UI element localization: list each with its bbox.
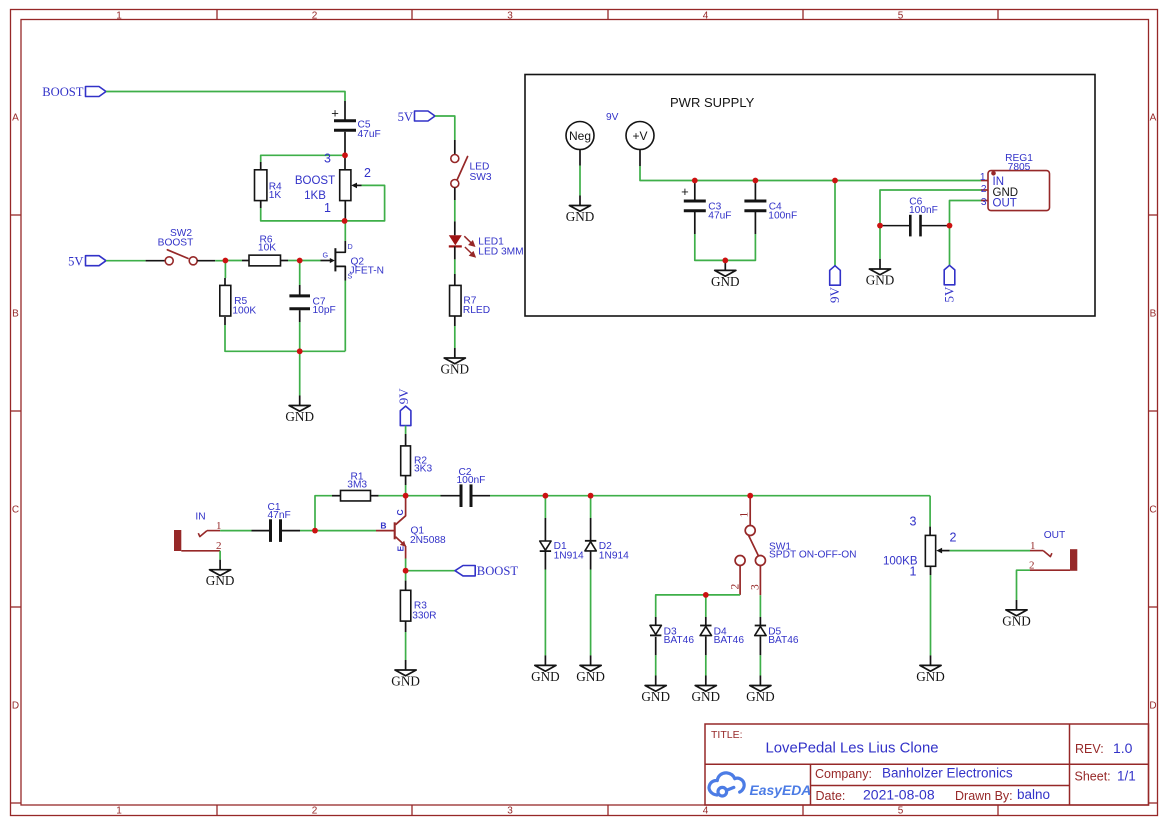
wire 9V branch xyxy=(834,181,836,266)
svg-text:GND: GND xyxy=(692,689,721,704)
svg-text:GND: GND xyxy=(206,573,235,588)
svg-text:330R: 330R xyxy=(412,610,436,621)
svg-text:2: 2 xyxy=(981,184,987,195)
junction 9V rail / C3 xyxy=(692,178,698,184)
svg-text:IN: IN xyxy=(195,512,205,523)
diode D2 1N914 xyxy=(585,518,629,570)
svg-text:BOOST: BOOST xyxy=(295,175,335,187)
junction rail / D1 xyxy=(543,493,549,499)
svg-text:D: D xyxy=(348,242,353,251)
svg-text:LED: LED xyxy=(470,162,490,173)
svg-text:2: 2 xyxy=(312,10,318,21)
wire pot wiper to OUT xyxy=(950,550,1030,552)
svg-text:100nF: 100nF xyxy=(768,210,797,221)
net flag 9V (PWR) xyxy=(827,266,842,303)
svg-text:GND: GND xyxy=(285,409,314,424)
svg-text:2: 2 xyxy=(950,531,957,545)
svg-text:2: 2 xyxy=(216,540,222,552)
svg-text:B: B xyxy=(380,521,386,531)
transistor Q2 JFET-N xyxy=(321,241,385,281)
svg-text:E: E xyxy=(396,546,406,552)
svg-text:10K: 10K xyxy=(258,243,276,254)
svg-text:C: C xyxy=(1149,505,1156,516)
svg-text:A: A xyxy=(12,113,19,124)
junction 9V rail / C4 xyxy=(753,178,759,184)
svg-text:RLED: RLED xyxy=(463,305,490,316)
resistor R4 xyxy=(255,170,283,201)
svg-text:2N5088: 2N5088 xyxy=(410,535,446,546)
wire SW2 to node xyxy=(215,260,225,262)
svg-text:3: 3 xyxy=(324,152,331,166)
wire rail to ground stem xyxy=(299,351,301,395)
wire 5V to SW3 xyxy=(435,116,455,140)
ground (D4) xyxy=(692,676,721,705)
svg-text:2021-08-08: 2021-08-08 xyxy=(863,787,935,803)
junction D-rail / D4 xyxy=(703,592,709,598)
wire D3 to ground xyxy=(655,655,657,675)
wire emitter node to R3 xyxy=(405,571,407,581)
svg-text:5: 5 xyxy=(898,806,904,817)
svg-text:BOOST: BOOST xyxy=(42,85,84,99)
wire collector node to C2 xyxy=(406,495,441,497)
junction C1 / R1 / Q1 base xyxy=(312,528,318,534)
svg-text:SPDT ON-OFF-ON: SPDT ON-OFF-ON xyxy=(769,550,857,561)
wire IN pin1 to C1 xyxy=(220,530,251,532)
svg-text:3: 3 xyxy=(507,10,513,21)
junction rail / SW1 pin1 xyxy=(747,493,753,499)
wire node to R5 xyxy=(224,261,226,279)
svg-text:1: 1 xyxy=(910,565,917,579)
capacitor C7 xyxy=(289,285,335,322)
capacitor C4 xyxy=(744,181,797,235)
svg-text:2: 2 xyxy=(730,584,742,590)
wire Neg to ground xyxy=(579,166,581,196)
svg-text:GND: GND xyxy=(566,209,595,224)
wire REG1 pin3 to C6 right xyxy=(950,201,982,226)
svg-text:100nF: 100nF xyxy=(457,475,486,486)
wire D5 to ground xyxy=(759,655,761,675)
svg-text:3K3: 3K3 xyxy=(414,464,432,475)
svg-text:GND: GND xyxy=(576,669,605,684)
ground (pot) xyxy=(916,655,945,684)
svg-text:D: D xyxy=(12,701,19,712)
switch SW1 SPDT ON-OFF-ON xyxy=(730,496,857,596)
svg-text:3: 3 xyxy=(910,515,917,529)
wire 9V rail xyxy=(640,166,981,181)
svg-text:5V: 5V xyxy=(941,286,956,303)
net flag 5V (PWR) xyxy=(941,265,956,302)
ground (OUT jack) xyxy=(1002,600,1031,629)
wire SW3 to LED1 xyxy=(454,200,456,221)
wire node to C7 xyxy=(299,261,301,286)
svg-text:GND: GND xyxy=(531,669,560,684)
svg-text:Banholzer Electronics: Banholzer Electronics xyxy=(882,766,1013,781)
potentiometer 100KB xyxy=(883,515,957,579)
wire D1 branch xyxy=(544,496,546,518)
ground (IN jack) xyxy=(206,560,235,589)
wire node to R6 xyxy=(225,260,242,262)
svg-text:1.0: 1.0 xyxy=(1113,740,1133,756)
connector IN jack xyxy=(174,512,222,553)
svg-text:Drawn By:: Drawn By: xyxy=(955,789,1013,803)
wire R6 to node xyxy=(281,260,289,262)
svg-text:1K: 1K xyxy=(269,190,282,201)
wire pot bottom to ground xyxy=(930,575,932,655)
connector +V xyxy=(626,122,654,167)
wire rail to pot 100KB xyxy=(929,496,931,527)
svg-text:1N914: 1N914 xyxy=(554,550,584,561)
ground (R3) xyxy=(391,660,420,689)
diode D5 BAT46 xyxy=(755,617,799,655)
junction SW2 / R5 / R6 xyxy=(223,258,229,264)
net flag 5V (SW2) xyxy=(68,255,106,269)
LED LED1 LED 3MM xyxy=(449,221,524,259)
svg-text:C: C xyxy=(395,509,405,515)
svg-text:GND: GND xyxy=(1002,613,1031,628)
diode D3 BAT46 xyxy=(650,617,694,655)
svg-text:B: B xyxy=(12,309,19,320)
svg-text:TITLE:: TITLE: xyxy=(711,729,743,741)
svg-text:LovePedal Les Lius Clone: LovePedal Les Lius Clone xyxy=(765,741,938,757)
svg-text:1: 1 xyxy=(116,10,122,21)
ground (Q2 section) xyxy=(285,396,314,425)
connector Neg xyxy=(566,122,594,166)
wire C7 to rail xyxy=(299,322,301,351)
ground (LED) xyxy=(441,348,470,377)
wire SW1 pin2 rail xyxy=(656,595,740,617)
svg-text:3M3: 3M3 xyxy=(347,479,367,490)
capacitor C2 xyxy=(441,467,491,507)
wire REG1 pin2 to C6 left xyxy=(880,190,981,226)
junction C6 left / GND xyxy=(877,223,883,229)
wire Q2 source to rail xyxy=(344,281,346,352)
wire D2 to ground xyxy=(590,570,592,656)
svg-text:+V: +V xyxy=(632,129,647,143)
svg-text:GND: GND xyxy=(916,669,945,684)
ground (C6) xyxy=(866,259,895,288)
switch SW3 LED xyxy=(451,155,492,188)
svg-text:+: + xyxy=(331,106,339,121)
svg-text:1: 1 xyxy=(739,512,751,518)
wire R2 to collector node xyxy=(405,476,407,485)
svg-text:LED 3MM: LED 3MM xyxy=(478,247,523,258)
junction source rail / ground xyxy=(297,348,303,354)
svg-text:BAT46: BAT46 xyxy=(714,635,745,646)
svg-text:1: 1 xyxy=(1030,540,1036,552)
wire R5 bottom to rail xyxy=(224,317,226,325)
resistor R6 xyxy=(249,235,281,266)
svg-text:BOOST: BOOST xyxy=(158,238,194,249)
resistor R1 xyxy=(341,471,371,501)
diode D4 BAT46 xyxy=(700,617,744,655)
svg-text:PWR SUPPLY: PWR SUPPLY xyxy=(670,95,755,110)
wire D2 branch xyxy=(590,496,592,518)
svg-text:1N914: 1N914 xyxy=(599,550,629,561)
wire SW1 pin3 to D5 xyxy=(759,595,761,617)
svg-text:5: 5 xyxy=(898,10,904,21)
connector OUT jack xyxy=(1029,530,1077,572)
capacitor C3 xyxy=(681,181,731,235)
wire IN pin2 to ground xyxy=(219,551,221,560)
diode D1 1N914 xyxy=(540,518,584,570)
svg-text:1/1: 1/1 xyxy=(1117,769,1136,784)
svg-text:OUT: OUT xyxy=(993,198,1017,210)
voltage regulator REG1 7805 xyxy=(980,153,1050,211)
svg-text:A: A xyxy=(1150,113,1157,124)
switch SW2 BOOST xyxy=(158,228,198,265)
ground (D1) xyxy=(531,655,560,684)
wire 5V flag to SW2 xyxy=(106,260,146,262)
wire C1 to base node xyxy=(300,530,315,532)
svg-text:Company:: Company: xyxy=(815,767,872,781)
svg-text:1: 1 xyxy=(980,172,986,183)
ground (C3 C4) xyxy=(711,260,740,289)
resistor R2 xyxy=(401,446,433,476)
wire C3/C4 to ground xyxy=(695,234,756,260)
svg-text:SW3: SW3 xyxy=(470,172,492,183)
wire gate xyxy=(300,260,321,262)
svg-text:GND: GND xyxy=(391,674,420,689)
svg-text:2: 2 xyxy=(364,166,371,180)
svg-text:4: 4 xyxy=(703,806,709,817)
svg-text:100nF: 100nF xyxy=(909,205,938,216)
junction emitter node xyxy=(403,568,409,574)
wire D4 to ground xyxy=(705,655,707,675)
wire pot wiper loop xyxy=(345,185,385,221)
svg-text:2: 2 xyxy=(312,806,318,817)
svg-text:+: + xyxy=(681,184,689,199)
junction R6 / C7 / Q2 gate xyxy=(297,258,303,264)
junction 9V rail / 9V flag xyxy=(832,178,838,184)
svg-text:Date:: Date: xyxy=(816,789,846,803)
svg-text:GND: GND xyxy=(441,362,470,377)
PWR SUPPLY box xyxy=(525,75,1095,317)
svg-text:EasyEDA: EasyEDA xyxy=(750,782,812,798)
wire R7 to ground xyxy=(454,316,456,326)
wire 9V flag to R2 xyxy=(405,426,407,434)
svg-text:OUT: OUT xyxy=(1044,530,1066,541)
wire R1 to collector node xyxy=(371,495,379,497)
svg-text:100K: 100K xyxy=(232,305,256,316)
capacitor C1 xyxy=(252,502,301,542)
svg-text:7805: 7805 xyxy=(1008,162,1031,173)
svg-text:3: 3 xyxy=(750,584,762,590)
wire pot bottom to Q2 drain xyxy=(344,221,346,241)
wire R3 to ground xyxy=(405,621,407,632)
svg-text:GND: GND xyxy=(866,273,895,288)
svg-text:C: C xyxy=(12,505,19,516)
wire output rail xyxy=(490,495,930,497)
wire base node up to R1 xyxy=(315,496,332,531)
svg-text:GND: GND xyxy=(746,689,775,704)
svg-text:BOOST: BOOST xyxy=(477,564,519,578)
capacitor C6 xyxy=(880,197,950,237)
wire BOOST flag to C5 xyxy=(106,92,345,102)
resistor R5 xyxy=(220,285,257,316)
svg-text:BAT46: BAT46 xyxy=(768,635,799,646)
svg-text:D: D xyxy=(1149,701,1156,712)
wire OUT pin2 to ground xyxy=(1017,570,1031,600)
svg-text:B: B xyxy=(1150,309,1157,320)
wire D4 branch xyxy=(705,595,707,617)
wire C6 right to 5V flag xyxy=(949,226,951,266)
potentiometer BOOST 1KB xyxy=(295,152,371,221)
transistor Q1 2N5088 xyxy=(376,496,446,559)
svg-text:GND: GND xyxy=(711,274,740,289)
svg-text:1: 1 xyxy=(324,201,331,215)
net flag 9V (R2) xyxy=(396,388,411,426)
svg-text:47uF: 47uF xyxy=(358,129,381,140)
ground (Neg) xyxy=(566,196,595,225)
svg-text:1: 1 xyxy=(116,806,122,817)
resistor R3 xyxy=(400,590,436,621)
svg-text:5V: 5V xyxy=(68,255,83,269)
wire D1 to ground xyxy=(544,570,546,656)
junction rail / D2 xyxy=(588,493,594,499)
junction node 3 (C5/R4/pot) xyxy=(342,152,348,158)
wire emitter node to BOOST flag xyxy=(406,570,455,572)
svg-text:G: G xyxy=(323,251,329,260)
junction C6 right / 5V xyxy=(947,223,953,229)
ground (D5) xyxy=(746,676,775,705)
svg-text:1KB: 1KB xyxy=(304,190,326,202)
wire emitter to node xyxy=(405,559,407,571)
svg-text:3: 3 xyxy=(981,197,987,208)
junction collector node xyxy=(403,493,409,499)
ground (D2) xyxy=(576,655,605,684)
wire C5 to R4 top xyxy=(261,155,345,162)
wire R4 bottom rail xyxy=(260,201,262,208)
junction C3-C4 ground rail xyxy=(722,258,728,264)
net flag BOOST (top left) xyxy=(42,85,106,99)
svg-text:47uF: 47uF xyxy=(708,210,731,221)
capacitor C5 (polarized) xyxy=(331,101,381,155)
svg-text:BAT46: BAT46 xyxy=(664,635,695,646)
ground (D3) xyxy=(641,676,670,705)
wire LED1 to R7 xyxy=(454,259,456,274)
svg-text:47nF: 47nF xyxy=(268,510,291,521)
svg-text:5V: 5V xyxy=(398,110,413,124)
svg-text:10pF: 10pF xyxy=(313,305,336,316)
resistor R7 xyxy=(450,285,491,316)
net flag 5V (LED) xyxy=(398,110,435,124)
svg-text:balno: balno xyxy=(1017,787,1050,802)
junction node 1 (pot bottom) xyxy=(342,218,348,224)
svg-text:GND: GND xyxy=(641,689,670,704)
svg-text:4: 4 xyxy=(703,10,709,21)
wire C6 left to ground xyxy=(879,226,881,259)
net flag BOOST (emitter) xyxy=(455,564,518,578)
wire base xyxy=(315,530,376,532)
svg-text:REV:: REV: xyxy=(1075,742,1104,756)
svg-text:JFET-N: JFET-N xyxy=(350,266,385,277)
svg-text:9V: 9V xyxy=(396,388,411,405)
svg-text:3: 3 xyxy=(507,806,513,817)
svg-text:Sheet:: Sheet: xyxy=(1075,770,1111,784)
svg-text:Neg: Neg xyxy=(569,129,591,143)
svg-text:9V: 9V xyxy=(827,287,842,304)
svg-text:9V: 9V xyxy=(606,112,619,123)
